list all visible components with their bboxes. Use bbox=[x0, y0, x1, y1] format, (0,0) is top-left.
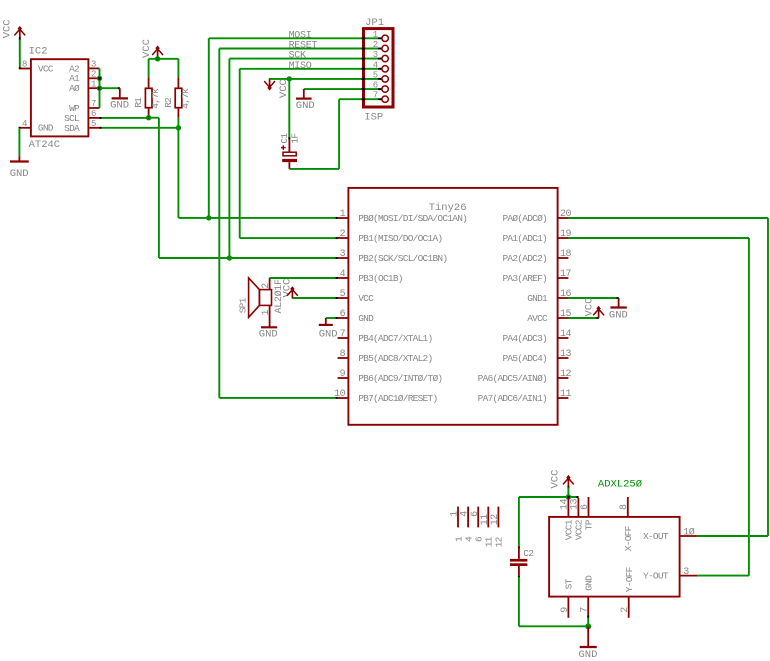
svg-text:2: 2 bbox=[261, 283, 272, 289]
svg-text:VCC: VCC bbox=[583, 298, 595, 317]
pin 2 of SP1 bbox=[269, 278, 271, 290]
wire RESET bbox=[219, 48, 378, 50]
pin 8 VCC of IC2 bbox=[20, 68, 30, 70]
svg-text:PB4(ADC7/XTAL1): PB4(ADC7/XTAL1) bbox=[358, 333, 432, 344]
svg-text:2: 2 bbox=[340, 229, 346, 240]
pin 15 AVCC of Tiny26 bbox=[558, 317, 569, 319]
svg-text:5: 5 bbox=[91, 119, 96, 129]
junction at pin 1 A0 bbox=[97, 86, 102, 91]
pin 2 of JP1 bbox=[382, 45, 388, 51]
pin 7 PB4 of Tiny26 bbox=[338, 337, 349, 339]
junction VCC rail bbox=[155, 56, 160, 61]
svg-text:PB3(OC1B): PB3(OC1B) bbox=[358, 273, 403, 284]
svg-text:VCC: VCC bbox=[278, 79, 290, 98]
svg-text:1: 1 bbox=[373, 30, 378, 40]
power flag VCC at Tiny26 AVCC pin 15 bbox=[568, 317, 570, 319]
pin 13 PA5 of Tiny26 bbox=[558, 357, 569, 359]
ground symbol below SP1 bbox=[261, 326, 277, 328]
svg-text:2: 2 bbox=[373, 40, 378, 50]
speaker SP1 bbox=[249, 278, 260, 317]
ground symbol below ADXL250 bbox=[587, 626, 589, 647]
wire VCC to Tiny26 VCC pin bbox=[292, 297, 337, 299]
wire MOSI bbox=[209, 37, 378, 39]
svg-text:12: 12 bbox=[560, 369, 572, 380]
svg-text:SP1: SP1 bbox=[237, 297, 248, 313]
svg-text:1Ø: 1Ø bbox=[683, 527, 695, 539]
svg-text:SDA: SDA bbox=[64, 123, 80, 134]
svg-text:GND: GND bbox=[579, 649, 598, 661]
pin 20 PAØ of Tiny26 bbox=[558, 217, 569, 219]
pin 5 SDA of IC2 bbox=[89, 127, 99, 129]
pin 2 A1 of IC2 bbox=[89, 77, 99, 79]
svg-text:X-OFF: X-OFF bbox=[623, 525, 634, 551]
svg-text:VCC: VCC bbox=[358, 293, 374, 304]
svg-text:Y-OFF: Y-OFF bbox=[624, 566, 635, 592]
wire SDA net: IC2 pin5 to R2 to Tiny26 PB0 bbox=[100, 127, 179, 129]
svg-text:3: 3 bbox=[683, 567, 689, 578]
svg-text:PB6(ADC9/INTØ/TØ): PB6(ADC9/INTØ/TØ) bbox=[358, 373, 442, 384]
svg-text:PA5(ADC4): PA5(ADC4) bbox=[502, 353, 547, 364]
svg-text:PAØ(ADCØ): PAØ(ADCØ) bbox=[502, 213, 547, 224]
pin 3 PB2 of Tiny26 bbox=[338, 257, 349, 259]
junction VCC/ADXL bbox=[566, 494, 571, 499]
svg-text:ISP: ISP bbox=[364, 112, 383, 124]
pin 10 X-OUT of ADXL250 bbox=[680, 535, 698, 537]
svg-text:GND: GND bbox=[584, 575, 595, 591]
pin 6 TP of ADXL250 bbox=[588, 497, 590, 517]
svg-text:GND: GND bbox=[10, 168, 29, 180]
svg-text:9: 9 bbox=[340, 369, 346, 380]
svg-text:7: 7 bbox=[91, 99, 96, 109]
pin 1 of JP1 bbox=[382, 35, 388, 41]
pin 4 GND of IC2 bbox=[20, 127, 30, 129]
svg-text:PBØ(MOSI/DI/SDA/OC1AN): PBØ(MOSI/DI/SDA/OC1AN) bbox=[358, 213, 467, 224]
svg-text:7: 7 bbox=[373, 91, 378, 101]
pin 14 VCC1 of ADXL250 bbox=[567, 498, 569, 517]
svg-text:GND: GND bbox=[259, 329, 278, 341]
pin 4 PB3 of Tiny26 bbox=[338, 277, 349, 279]
pin 2 PB1 of Tiny26 bbox=[338, 237, 349, 239]
junction VCC / C1 branch bbox=[287, 76, 292, 81]
svg-text:4: 4 bbox=[373, 60, 378, 70]
header JP1 ISP connector body bbox=[364, 29, 394, 107]
svg-text:C1: C1 bbox=[279, 133, 290, 144]
junction SCK joins SCL wire bbox=[227, 255, 232, 260]
svg-text:GND: GND bbox=[110, 100, 129, 112]
pin 17 PA3 of Tiny26 bbox=[558, 277, 569, 279]
svg-text:VCC: VCC bbox=[549, 470, 561, 489]
svg-text:PB2(SCK/SCL/OC1BN): PB2(SCK/SCL/OC1BN) bbox=[358, 253, 447, 264]
svg-text:PB1(MISO/DO/OC1A): PB1(MISO/DO/OC1A) bbox=[358, 233, 442, 244]
microcontroller Tiny26 body bbox=[348, 188, 557, 425]
svg-text:GND: GND bbox=[358, 313, 374, 324]
wire C2 to ground rail bbox=[518, 576, 520, 578]
svg-text:8: 8 bbox=[340, 349, 346, 360]
ground at Tiny26 GND1 pin 16 bbox=[568, 297, 570, 299]
pin 12 PA6 of Tiny26 bbox=[558, 377, 569, 379]
unconnected pins 1 4 6 11 12 of ADXL250 bbox=[457, 507, 459, 528]
svg-text:GND: GND bbox=[38, 123, 54, 134]
pin 13 VCC2 of ADXL250 bbox=[577, 498, 579, 517]
svg-text:Y-OUT: Y-OUT bbox=[643, 571, 669, 582]
svg-text:10: 10 bbox=[334, 389, 346, 400]
pin 6 SCL of IC2 bbox=[89, 117, 99, 119]
junction at pin 2 A1 bbox=[97, 76, 102, 81]
svg-text:17: 17 bbox=[560, 269, 572, 280]
pin 7 of JP1 bbox=[382, 96, 388, 102]
pin 7 WP of IC2 bbox=[89, 107, 99, 109]
wire A0 to ground bbox=[100, 87, 120, 89]
wire VCC rail to R1 R2 tops bbox=[149, 58, 179, 60]
svg-text:PA4(ADC3): PA4(ADC3) bbox=[502, 333, 547, 344]
junction GND rail bbox=[585, 623, 591, 629]
ground symbol near IC2 address pins bbox=[119, 88, 121, 98]
svg-text:3: 3 bbox=[340, 249, 346, 260]
pin 6 GND of Tiny26 bbox=[338, 317, 349, 319]
pin 9 PB6 of Tiny26 bbox=[338, 377, 349, 379]
pin 1 A0 of IC2 bbox=[89, 87, 99, 89]
pin 2 Y-OFF of ADXL250 bbox=[628, 597, 630, 618]
svg-text:R1: R1 bbox=[133, 97, 144, 108]
svg-text:GND: GND bbox=[609, 310, 628, 322]
wire SCL net: IC2 pin6 to R1 to Tiny26 PB2 bbox=[100, 117, 149, 119]
svg-text:PA3(AREF): PA3(AREF) bbox=[502, 273, 547, 284]
svg-text:9: 9 bbox=[560, 607, 571, 613]
wire SCK bbox=[229, 58, 378, 60]
eeprom IC2 AT24C body bbox=[31, 59, 89, 136]
pin 16 GND1 of Tiny26 bbox=[558, 297, 569, 299]
wire down to C1 bbox=[288, 79, 290, 138]
pin 5 of JP1 bbox=[382, 76, 388, 82]
wire IC2 GND pin down bbox=[19, 127, 21, 129]
svg-text:TP: TP bbox=[584, 519, 595, 530]
svg-text:PA2(ADC2): PA2(ADC2) bbox=[502, 253, 547, 264]
wire MISO bbox=[240, 68, 378, 70]
svg-text:6: 6 bbox=[373, 81, 378, 91]
svg-text:ST: ST bbox=[564, 578, 575, 589]
pin 8 PB5 of Tiny26 bbox=[338, 357, 349, 359]
pin 18 PA2 of Tiny26 bbox=[558, 257, 569, 259]
svg-text:VCC: VCC bbox=[1, 19, 13, 38]
svg-text:8: 8 bbox=[619, 504, 630, 510]
svg-text:MISO: MISO bbox=[289, 61, 312, 72]
svg-text:PA6(ADC5/AINØ): PA6(ADC5/AINØ) bbox=[478, 373, 547, 384]
pin 1 of SP1 bbox=[269, 305, 271, 327]
svg-text:IC2: IC2 bbox=[29, 46, 48, 58]
ground symbol below IC2 bbox=[18, 156, 20, 161]
pin 4 of JP1 bbox=[382, 66, 388, 72]
svg-text:6: 6 bbox=[580, 504, 591, 510]
svg-text:AØ: AØ bbox=[69, 83, 80, 94]
junction R2 bottom / SDA bbox=[176, 125, 181, 130]
pin 1 PBØ of Tiny26 bbox=[338, 217, 349, 219]
svg-text:11: 11 bbox=[560, 389, 572, 400]
svg-text:7: 7 bbox=[580, 607, 591, 613]
pin 3 A2 of IC2 bbox=[89, 67, 99, 69]
svg-text:4: 4 bbox=[340, 269, 346, 280]
svg-text:R2: R2 bbox=[163, 97, 174, 108]
ground at Tiny26 pin 6 bbox=[326, 317, 338, 319]
pin 3 Y-OUT of ADXL250 bbox=[680, 575, 698, 577]
svg-text:18: 18 bbox=[560, 249, 572, 260]
pin 19 PA1 of Tiny26 bbox=[558, 237, 569, 239]
resistor R2 bbox=[177, 77, 179, 88]
svg-text:GND: GND bbox=[296, 100, 315, 112]
wire VCC rail to ADXL supply bbox=[519, 496, 579, 498]
svg-text:1F: 1F bbox=[290, 133, 301, 144]
svg-text:AVCC: AVCC bbox=[527, 313, 548, 324]
svg-text:13: 13 bbox=[560, 349, 572, 360]
capacitor C1 polarized bbox=[288, 139, 290, 152]
pin 6 of JP1 bbox=[382, 86, 388, 92]
svg-text:AT24C: AT24C bbox=[29, 139, 61, 151]
svg-text:PB5(ADC8/XTAL2): PB5(ADC8/XTAL2) bbox=[358, 353, 432, 364]
junction MOSI joins SDA wire bbox=[206, 215, 211, 220]
svg-text:7: 7 bbox=[340, 329, 346, 340]
wire PA0 ADC0 to X-OUT of ADXL250 bbox=[568, 217, 570, 219]
capacitor C2 bbox=[518, 497, 520, 548]
wire SP1 to Tiny26 PB3 bbox=[270, 277, 272, 279]
svg-text:1: 1 bbox=[91, 79, 96, 89]
svg-text:12: 12 bbox=[494, 536, 505, 547]
wire R2 bottom to junction bbox=[177, 118, 179, 128]
pin 5 VCC of Tiny26 bbox=[338, 297, 349, 299]
svg-text:PA1(ADC1): PA1(ADC1) bbox=[502, 233, 547, 244]
resistor R1 bbox=[148, 77, 150, 88]
svg-text:4,7k: 4,7k bbox=[180, 88, 191, 109]
svg-text:GND: GND bbox=[319, 329, 338, 341]
wire ADXL GND pin to rail bbox=[587, 617, 589, 627]
svg-text:2: 2 bbox=[620, 607, 631, 613]
pin 7 GND of ADXL250 bbox=[587, 597, 589, 617]
svg-text:PB7(ADC1Ø/RESET): PB7(ADC1Ø/RESET) bbox=[358, 393, 437, 404]
svg-text:C2: C2 bbox=[523, 548, 534, 559]
svg-text:4: 4 bbox=[22, 119, 27, 129]
ground symbol near ISP pin 6 bbox=[304, 88, 378, 90]
svg-text:3: 3 bbox=[373, 50, 378, 60]
svg-text:6: 6 bbox=[340, 309, 346, 320]
pin 3 of JP1 bbox=[382, 55, 388, 61]
svg-text:3: 3 bbox=[91, 60, 96, 70]
wire VCC to ISP pin 5 bbox=[270, 78, 378, 80]
svg-text:X-OUT: X-OUT bbox=[643, 531, 669, 542]
svg-text:1: 1 bbox=[261, 310, 272, 316]
pin 14 PA4 of Tiny26 bbox=[558, 337, 569, 339]
wire PA1 ADC1 to Y-OUT of ADXL250 bbox=[568, 237, 570, 239]
svg-text:VCC: VCC bbox=[141, 39, 153, 58]
accelerometer ADXL250 body bbox=[549, 517, 680, 597]
wire VCC to IC2 pin 8 bbox=[19, 37, 21, 40]
svg-text:6: 6 bbox=[91, 109, 96, 119]
pin 8 X-OFF of ADXL250 bbox=[627, 497, 629, 517]
svg-text:4,7k: 4,7k bbox=[150, 88, 161, 109]
svg-text:1: 1 bbox=[340, 209, 346, 220]
pin 9 ST of ADXL250 bbox=[567, 597, 569, 618]
junction R1 bottom / SCL bbox=[146, 115, 151, 120]
svg-text:12: 12 bbox=[490, 514, 501, 526]
svg-text:14: 14 bbox=[560, 329, 572, 340]
wire C1 bottom to ISP pin 7 bbox=[289, 168, 339, 170]
pin 11 PA7 of Tiny26 bbox=[558, 397, 569, 399]
pin 10 PB7 of Tiny26 bbox=[338, 397, 349, 399]
svg-text:5: 5 bbox=[373, 70, 378, 80]
svg-text:ADXL25Ø: ADXL25Ø bbox=[598, 479, 642, 491]
svg-text:8: 8 bbox=[22, 60, 27, 70]
svg-text:2: 2 bbox=[91, 70, 96, 80]
svg-text:PA7(ADC6/AIN1): PA7(ADC6/AIN1) bbox=[478, 393, 547, 404]
svg-text:5: 5 bbox=[340, 289, 346, 300]
svg-text:GND1: GND1 bbox=[527, 293, 548, 304]
svg-text:VCC: VCC bbox=[38, 63, 54, 74]
wire tying A2 A1 A0 WP bbox=[99, 68, 101, 108]
